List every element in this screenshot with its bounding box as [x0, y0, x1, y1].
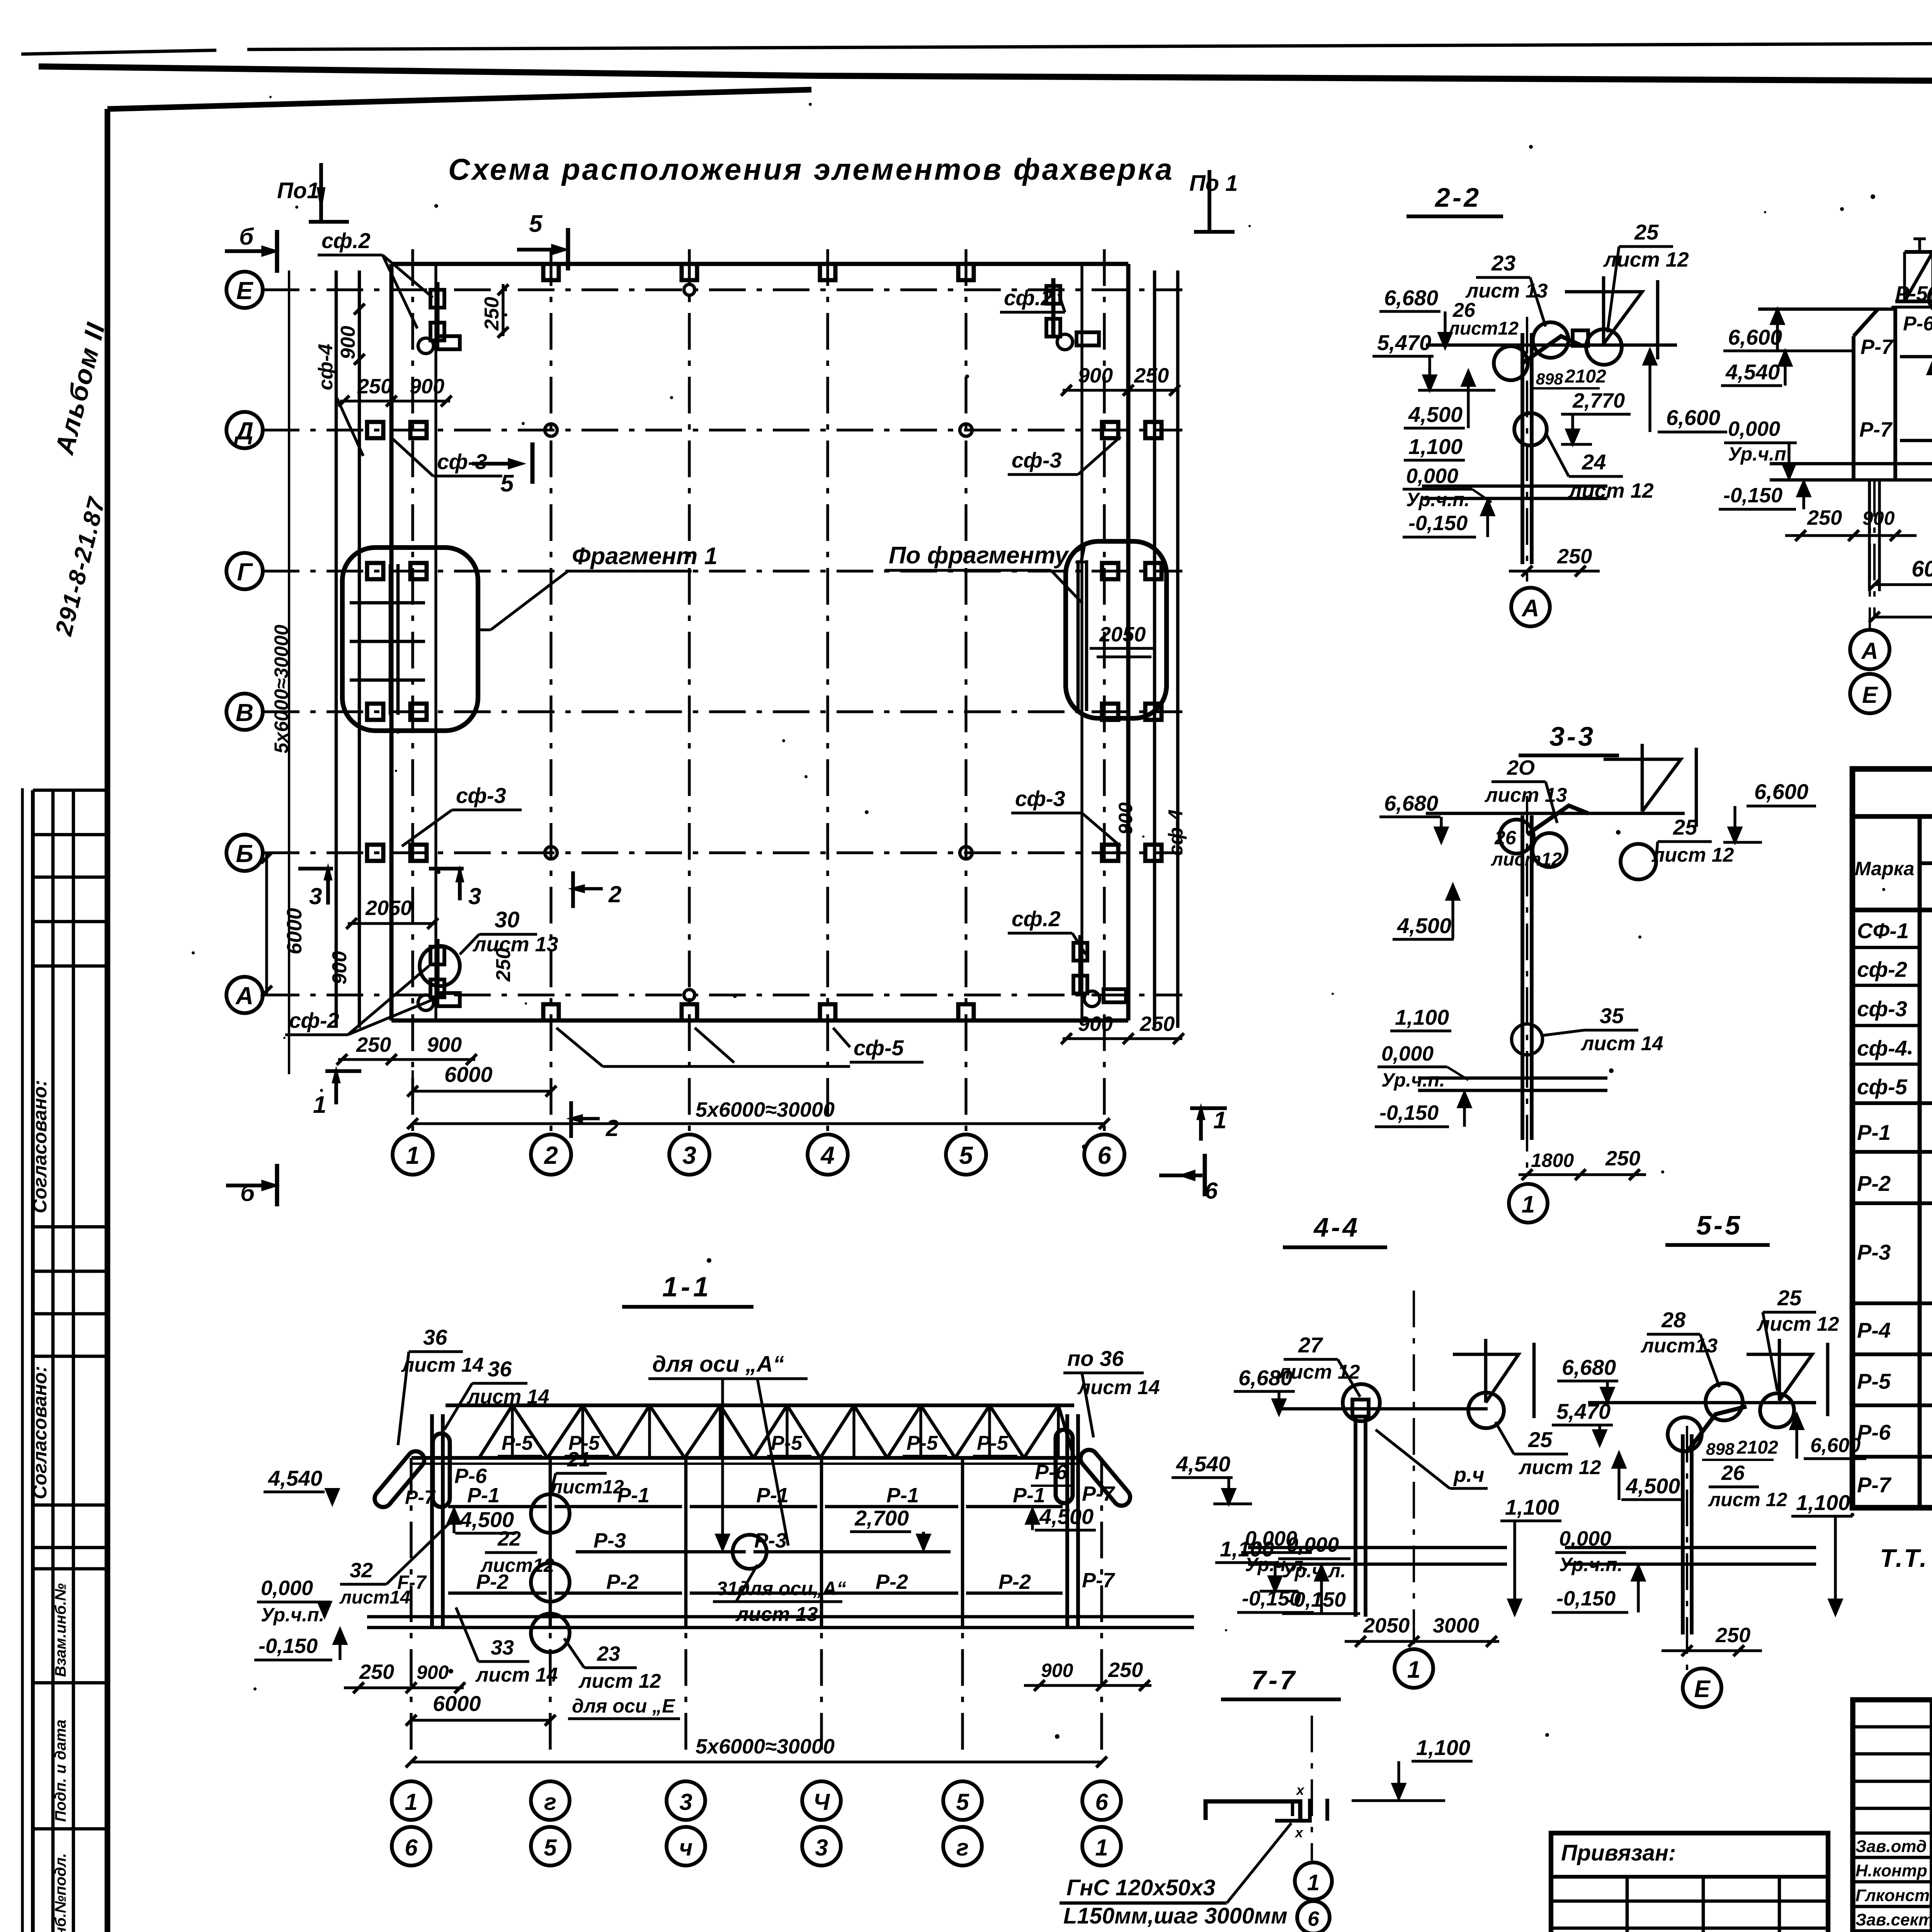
- section 6-6 level 6,600 left: [1723, 309, 1784, 351]
- svg-text:Зав.отд: Зав.отд: [1855, 1837, 1927, 1856]
- titleblock signature table rows: [1853, 1727, 1932, 1932]
- svg-text:33: 33: [491, 1636, 514, 1659]
- plan left wall post marks row y1113: [367, 422, 427, 438]
- section 5-5 level 0,000: [1555, 1527, 1626, 1575]
- plan section flag Po 1 top-right: [1189, 170, 1238, 232]
- svg-text:1: 1: [1522, 1191, 1535, 1218]
- plan left wall post marks row y1478: [367, 563, 427, 579]
- section 1-1 label 2,700: [850, 1506, 930, 1549]
- svg-text:1,100: 1,100: [1408, 434, 1463, 459]
- section 3-3 label 0,000: [1378, 1042, 1468, 1091]
- section 5-5 label 5,470: [1552, 1399, 1613, 1445]
- svg-text:5х6000≈30000: 5х6000≈30000: [696, 1735, 835, 1758]
- svg-text:6: 6: [1097, 1141, 1111, 1169]
- section 1-1 dims 250 900 left: [344, 1660, 465, 1693]
- svg-text:1: 1: [1307, 1870, 1320, 1895]
- svg-text:по 36: по 36: [1067, 1346, 1124, 1371]
- svg-text:1-1: 1-1: [662, 1272, 712, 1303]
- section 3-3 label 35 list 14: [1512, 1003, 1663, 1055]
- section 1-1 label 33 list 14: [456, 1607, 558, 1686]
- svg-text:-0,150: -0,150: [1723, 484, 1782, 507]
- section 5-5 level -0,150: [1552, 1566, 1645, 1612]
- plan dim 900 bottom-left rotated: [328, 951, 351, 985]
- svg-text:Подп. и дата: Подп. и дата: [52, 1719, 69, 1822]
- plan dim 900 top-left rotated: [337, 304, 365, 365]
- section 3-3 label 6,680 left: [1379, 791, 1447, 842]
- svg-text:5х6000≈30000: 5х6000≈30000: [270, 624, 292, 753]
- section 6-6 level 4,540 left: [1721, 351, 1855, 386]
- section 2-2 balloon upper-right: [1586, 329, 1622, 365]
- section 4-4 ground lines: [1248, 1548, 1507, 1564]
- svg-text:Фрагмент 1: Фрагмент 1: [572, 543, 718, 570]
- section 4-4 level -0,150: [1237, 1566, 1328, 1612]
- plan axis row 3 line: [263, 710, 1182, 713]
- svg-text:1: 1: [406, 1141, 420, 1169]
- vedomost table outer border: [1852, 769, 1932, 1508]
- svg-text:0,000: 0,000: [261, 1577, 313, 1600]
- svg-text:900: 900: [410, 375, 444, 398]
- plan axis row 2 line: [263, 570, 1182, 572]
- svg-text:Р-6: Р-6: [1857, 1420, 1891, 1444]
- section 1-1 level -0,150 left: [254, 1629, 346, 1660]
- plan dim 250 900 bottom-left: [337, 1033, 477, 1065]
- svg-text:5: 5: [500, 470, 514, 497]
- svg-text:250: 250: [1605, 1147, 1640, 1170]
- section 5-5 balloons: [1668, 1383, 1794, 1451]
- svg-text:4,540: 4,540: [1176, 1452, 1230, 1476]
- titleblock privyazan table outline: [1551, 1833, 1828, 1932]
- section 1-1 labels P-1 row: [467, 1484, 1045, 1507]
- section 1-1 axis circles row 1: [392, 1781, 1121, 1820]
- plan axis row 0 circle: [226, 272, 263, 308]
- svg-text:2О: 2О: [1507, 756, 1535, 779]
- plan top wall post mark at x2142: [820, 264, 835, 280]
- svg-text:Инб.№подл.: Инб.№подл.: [52, 1853, 69, 1932]
- svg-text:25: 25: [1528, 1427, 1553, 1452]
- svg-text:1,100: 1,100: [1796, 1490, 1850, 1515]
- sheet frame top main line: [39, 66, 1932, 84]
- section 1-1 label 36 list 14 second: [444, 1357, 549, 1430]
- plan side fachwerk strut lines right: [1155, 270, 1178, 1028]
- section 7-7 channel profile: [1206, 1782, 1327, 1840]
- svg-text:6,680: 6,680: [1384, 286, 1438, 310]
- svg-text:лист 12: лист 12: [1756, 1313, 1839, 1335]
- plan assembly sf2 bottom-right: [1073, 935, 1126, 1007]
- svg-text:900: 900: [1041, 1660, 1073, 1681]
- section 2-2 truss end flag: [1565, 276, 1658, 359]
- svg-text:1: 1: [1095, 1835, 1108, 1861]
- plan section flag 5 top: [517, 211, 568, 270]
- section 1-1 dims 900 250 right: [1024, 1658, 1151, 1691]
- plan assembly sf2 bottom-left: [418, 939, 460, 1010]
- svg-text:31для оси„А“: 31для оси„А“: [716, 1578, 846, 1599]
- svg-text:-0,150: -0,150: [1379, 1101, 1439, 1124]
- plan axis row 4 circle: [226, 835, 263, 871]
- section 1-1 column solids: [550, 1458, 963, 1628]
- svg-text:Р-5: Р-5: [771, 1432, 803, 1454]
- svg-text:4,500: 4,500: [1397, 913, 1451, 938]
- svg-text:лист 14: лист 14: [1077, 1376, 1160, 1399]
- titleblock privyazan label: [1561, 1840, 1676, 1866]
- titleblock privyazan columns: [1627, 1877, 1779, 1932]
- svg-text:-0,150: -0,150: [1556, 1587, 1616, 1610]
- svg-text:сф.2: сф.2: [321, 228, 371, 253]
- plan label sf.2 top-left: [318, 228, 433, 328]
- section 7-7 label 1,100: [1352, 1735, 1473, 1801]
- plan label sf-3 lower-right: [1011, 786, 1121, 846]
- svg-text:лист 12: лист 12: [1518, 1456, 1601, 1479]
- section 3-3 dims 1800 250: [1519, 1147, 1646, 1180]
- svg-text:-0,150: -0,150: [1408, 512, 1468, 535]
- section 2-2 label -0,150: [1403, 500, 1494, 537]
- svg-text:сф-2: сф-2: [289, 1008, 339, 1032]
- svg-text:Привязан:: Привязан:: [1561, 1840, 1676, 1866]
- left margin text 291-8-21.87: [50, 494, 111, 638]
- section 5-5 label 6,600: [1791, 1414, 1866, 1459]
- svg-text:сф-4: сф-4: [1165, 809, 1187, 856]
- svg-text:Р-7: Р-7: [1861, 335, 1894, 359]
- vedomost header row lines: [1852, 863, 1932, 910]
- svg-text:2: 2: [608, 881, 621, 907]
- section 1-1 label P-6 left: [454, 1464, 487, 1488]
- svg-text:25: 25: [1634, 220, 1659, 244]
- sheet frame inner border left: [105, 109, 111, 1932]
- section 2-2 label 24 list 12: [1546, 433, 1654, 502]
- svg-text:6: 6: [1095, 1789, 1108, 1815]
- vedomost vertical lines: [1920, 816, 1932, 1508]
- plan fragment 1 rounded outline right: [1066, 541, 1167, 718]
- section 6-6 labels P-7: [1859, 335, 1932, 441]
- section 4-4 column: [1352, 1400, 1369, 1617]
- svg-text:250: 250: [1557, 545, 1592, 568]
- plan label sf-3 upper-left: [390, 437, 502, 476]
- section 1-1 labels P-2 row: [476, 1570, 1031, 1594]
- plan axis column 2 line: [549, 249, 552, 1134]
- svg-text:сф-3: сф-3: [437, 449, 487, 474]
- section 6-6 label 54 list 14: [1929, 191, 1932, 314]
- plan dim 900 250 right-mid rotated: [1115, 802, 1136, 835]
- section 2-2 label 4,500: [1404, 371, 1475, 428]
- svg-text:250: 250: [1134, 364, 1169, 387]
- svg-text:Взам.инб.№: Взам.инб.№: [52, 1583, 69, 1677]
- svg-text:6,600: 6,600: [1754, 779, 1808, 804]
- svg-text:900: 900: [427, 1033, 462, 1056]
- section 1-1 label P-6 right: [1031, 1461, 1072, 1486]
- plan label sf-3 upper-right: [1008, 437, 1121, 474]
- section 3-3 balloon mid: [1532, 833, 1566, 867]
- plan bottom dim line 30000: [407, 1098, 1110, 1129]
- svg-text:Г: Г: [237, 558, 253, 586]
- section 1-1 dim 5x6000=30000: [406, 1735, 1107, 1767]
- plan label sf-5 bottom: [556, 1028, 923, 1066]
- svg-text:5,470: 5,470: [1377, 330, 1431, 355]
- svg-text:лист 14: лист 14: [1580, 1032, 1663, 1055]
- sheet outer left thin line: [21, 788, 24, 1932]
- svg-text:г: г: [544, 1789, 556, 1815]
- svg-text:6000: 6000: [283, 908, 306, 954]
- svg-text:35: 35: [1600, 1003, 1624, 1028]
- svg-text:6,600: 6,600: [1666, 405, 1720, 430]
- svg-text:25: 25: [1777, 1286, 1802, 1310]
- plan section flag 2 bottom: [571, 1101, 619, 1141]
- plan side fachwerk strut lines left: [336, 270, 359, 1028]
- section 3-3 title: [1519, 721, 1619, 755]
- section 2-2 label 2,770: [1561, 389, 1631, 444]
- plan left chain line: [288, 270, 290, 1074]
- section 1-1 label dlya osi A: [648, 1352, 808, 1549]
- plan bottom wall post mark at x2500: [958, 1004, 974, 1020]
- svg-text:1: 1: [1213, 1107, 1226, 1134]
- svg-text:6,680: 6,680: [1562, 1355, 1616, 1379]
- plan right wall post marks row y1113: [1102, 422, 1162, 438]
- plan axis column 1 circle: [393, 1134, 433, 1175]
- plan axis row 1 line: [263, 429, 1182, 431]
- section 3-3 label 25 list 12 right: [1651, 815, 1734, 866]
- left stamp text Soglasovano 2: [29, 1366, 51, 1499]
- section 2-2 label 5,470: [1372, 330, 1495, 390]
- section 2-2 balloon lower: [1514, 413, 1547, 446]
- svg-text:сф.2: сф.2: [1004, 286, 1053, 310]
- sheet frame inner border top: [107, 90, 811, 109]
- svg-text:1,100: 1,100: [1416, 1735, 1470, 1760]
- plan axis column 4 circle: [808, 1134, 848, 1175]
- svg-text:22: 22: [497, 1527, 521, 1550]
- svg-text:Е: Е: [236, 277, 254, 304]
- sheet frame top outer line: [21, 41, 1932, 54]
- svg-text:сф-3: сф-3: [1015, 786, 1065, 811]
- plan fragment right 2050 dimension: [1090, 623, 1155, 657]
- svg-text:3000: 3000: [1433, 1614, 1479, 1637]
- plan section flag Po1 top: [277, 163, 349, 222]
- svg-text:4: 4: [820, 1141, 835, 1169]
- svg-text:2: 2: [544, 1141, 558, 1169]
- plan axis node circles: [545, 284, 972, 1000]
- svg-text:1: 1: [405, 1789, 417, 1815]
- section 6-6 label P-6 left: [1903, 313, 1932, 335]
- plan axis row 5 circle: [226, 977, 263, 1013]
- section 1-1 labels P-7 lower: [397, 1569, 1116, 1593]
- section 6-6 foundation posts left: [1869, 480, 1879, 591]
- svg-text:26: 26: [1494, 827, 1517, 849]
- section 1-1 label 4,500 right: [1026, 1504, 1096, 1530]
- svg-text:1800: 1800: [1531, 1150, 1574, 1171]
- section 6-6 truss chords: [1895, 252, 1932, 307]
- svg-text:сф-3: сф-3: [1012, 448, 1062, 472]
- svg-text:Р-1: Р-1: [467, 1484, 500, 1507]
- vedomost marka column texts: [1857, 918, 1909, 1497]
- plan section flag b bottom-left: [226, 1164, 277, 1206]
- section 1-1 beams P-2 level: [448, 1592, 1063, 1595]
- section 2-2 corner brace: [1522, 330, 1588, 363]
- svg-text:6000: 6000: [1912, 556, 1932, 582]
- left margin text Album II: [49, 319, 111, 458]
- plan label Fragment 1: [478, 543, 718, 630]
- svg-text:Е: Е: [1694, 1676, 1711, 1702]
- svg-text:Р-7: Р-7: [1082, 1569, 1116, 1592]
- svg-text:3: 3: [309, 883, 322, 909]
- svg-text:900: 900: [1862, 507, 1895, 529]
- section 6-6 column axis dash lines: [1870, 480, 1932, 630]
- plan dim 6000 left rotated: [261, 852, 306, 997]
- section 2-2 label 26 list 12: [1447, 299, 1519, 339]
- svg-text:лист14: лист14: [339, 1587, 410, 1608]
- svg-text:Р-5: Р-5: [977, 1432, 1009, 1454]
- svg-text:5: 5: [544, 1835, 557, 1861]
- svg-text:А: А: [1861, 638, 1878, 664]
- svg-text:Б: Б: [236, 840, 253, 867]
- plan axis column 3 line: [688, 249, 690, 1134]
- svg-text:Р-3: Р-3: [754, 1529, 787, 1552]
- svg-text:-0,150: -0,150: [1242, 1587, 1301, 1610]
- svg-text:6,600: 6,600: [1810, 1434, 1861, 1457]
- svg-text:7-7: 7-7: [1251, 1665, 1297, 1695]
- section 5-5 label 25 list 12: [1756, 1286, 1839, 1391]
- svg-text:Д: Д: [234, 417, 253, 445]
- svg-text:Р-1: Р-1: [756, 1484, 789, 1507]
- svg-text:лист 14: лист 14: [466, 1386, 549, 1408]
- plan section flag 5 lower: [472, 442, 532, 497]
- svg-text:6: 6: [405, 1835, 418, 1861]
- svg-text:24: 24: [1582, 450, 1606, 474]
- titleblock signature table columns: [1932, 1700, 1932, 1932]
- svg-text:б: б: [239, 224, 254, 250]
- section 5-5 texts 898 2102: [1702, 1437, 1778, 1460]
- section 6-6 left portal column: [1854, 307, 1895, 618]
- plan section flag 3 left: [298, 869, 333, 909]
- plan right wall post marks row y1842: [1102, 704, 1162, 720]
- plan axis row 3 circle: [226, 694, 263, 730]
- section 3-3 label 1,100: [1390, 1005, 1451, 1031]
- svg-text:По фрагменту 1: По фрагменту 1: [889, 542, 1088, 569]
- plan section flag b top-left: [225, 224, 277, 273]
- section 4-4 label 27 list 12: [1277, 1333, 1360, 1397]
- plan label sf-2 bottom-right: [1008, 906, 1086, 954]
- titleblock privyazan rows: [1551, 1877, 1828, 1932]
- svg-text:21: 21: [567, 1448, 590, 1471]
- plan axis column 6 circle: [1084, 1134, 1124, 1175]
- svg-text:5-5: 5-5: [1696, 1210, 1742, 1240]
- svg-text:0,000: 0,000: [1728, 417, 1780, 440]
- plan right wall post marks row y1478: [1102, 563, 1162, 579]
- svg-text:250: 250: [357, 375, 392, 398]
- svg-text:4,540: 4,540: [268, 1466, 322, 1490]
- section 7-7 axis circles stack: [1295, 1862, 1332, 1932]
- plan label sf-4 left rotated: [315, 344, 363, 456]
- plan axis row 2 circle: [226, 553, 263, 589]
- svg-text:5х6000≈30000: 5х6000≈30000: [696, 1098, 835, 1121]
- svg-text:900: 900: [1115, 802, 1136, 835]
- plan section flag 1 bottom-left: [313, 1071, 361, 1118]
- left stamp text Inv N podl: [52, 1853, 69, 1932]
- titleblock signature labels: [1855, 1837, 1932, 1932]
- svg-text:1: 1: [313, 1092, 326, 1118]
- plan axis column 1 line: [411, 249, 414, 1134]
- vedomost table title: [1852, 781, 1932, 816]
- section 1-1 dim 6000: [406, 1691, 556, 1726]
- svg-text:Р-5: Р-5: [1895, 282, 1928, 305]
- plan dim 900 250 bottom-right: [1061, 1012, 1184, 1044]
- left stamp table grid: [33, 790, 107, 1932]
- section 3-3 label 6,600 right: [1723, 779, 1816, 842]
- svg-text:2: 2: [605, 1115, 619, 1141]
- plan label Po fragmentu 1: [885, 542, 1088, 603]
- svg-text:лист12: лист12: [550, 1476, 624, 1498]
- plan left wall post marks row y2207: [367, 845, 427, 861]
- vedomost row separator lines: [1852, 947, 1932, 1457]
- plan section flag 3 right: [429, 869, 481, 909]
- svg-text:Р-5: Р-5: [502, 1432, 533, 1454]
- plan dim 900 250 top-right: [1061, 364, 1180, 396]
- svg-text:3-3: 3-3: [1549, 721, 1595, 752]
- svg-text:Р-5: Р-5: [906, 1432, 938, 1454]
- section 4-4 axis line: [1413, 1291, 1415, 1644]
- section 1-1 level 4,540 right: [1172, 1452, 1252, 1504]
- svg-text:32: 32: [350, 1559, 373, 1582]
- plan label sf-2 bottom-left: [285, 966, 435, 1035]
- svg-text:Р-7: Р-7: [405, 1486, 436, 1508]
- plan axis row 5 line: [263, 993, 1182, 996]
- section 2-2 label 0,000: [1403, 464, 1492, 510]
- section 6-6 level 0,000 left: [1724, 417, 1797, 478]
- section 2-2 title: [1406, 182, 1503, 216]
- section 5-5 title: [1665, 1210, 1770, 1245]
- svg-text:900: 900: [328, 951, 351, 985]
- svg-text:2-2: 2-2: [1434, 182, 1481, 213]
- svg-text:26: 26: [1721, 1461, 1745, 1485]
- svg-text:900: 900: [1078, 364, 1113, 387]
- section 4-4 label 25 list 12: [1495, 1422, 1601, 1479]
- svg-text:Р-7: Р-7: [1859, 418, 1893, 441]
- svg-text:А: А: [235, 982, 253, 1010]
- plan section flag 1 bottom-right: [1190, 1107, 1227, 1141]
- svg-text:0,000: 0,000: [1381, 1042, 1434, 1065]
- section 6-6 beam P-1 left bay: [1900, 355, 1932, 359]
- svg-text:для оси „А“: для оси „А“: [652, 1352, 784, 1377]
- svg-text:лист 13: лист 13: [472, 933, 558, 956]
- svg-text:Р-1: Р-1: [886, 1484, 919, 1507]
- section 6-6 level -0,150 left: [1719, 481, 1810, 509]
- svg-text:Марка: Марка: [1855, 858, 1914, 879]
- section 1-1 left capsules: [371, 1434, 450, 1510]
- section 1-1 label 4,500 left: [448, 1507, 516, 1533]
- plan fragment 1 rounded outline left: [342, 548, 478, 731]
- svg-text:сф.2: сф.2: [1012, 906, 1061, 931]
- svg-text:Р-2: Р-2: [1857, 1171, 1891, 1196]
- section 6-6 dim 5x6000=30000: [1869, 591, 1932, 622]
- section 1-1 labels P-7 upper: [405, 1482, 1116, 1508]
- svg-text:Р-2: Р-2: [876, 1570, 908, 1594]
- section 6-6 beams P-2 row: [1900, 439, 1932, 442]
- plan axis column 2 circle: [531, 1134, 571, 1175]
- svg-text:лист 13: лист 13: [1484, 784, 1567, 806]
- plan axis column 5 line: [964, 249, 967, 1134]
- section 5-5 truss end flag: [1747, 1339, 1828, 1416]
- section 6-6 left level line 6600: [1758, 308, 1895, 311]
- section 5-5 label 1,100: [1791, 1490, 1852, 1614]
- section 1-1 balloon at ground col2: [531, 1614, 570, 1652]
- svg-text:25: 25: [1673, 815, 1697, 839]
- section 5-5 column: [1683, 1426, 1692, 1673]
- plan top wall post mark at x2500: [958, 264, 974, 280]
- svg-text:ГнС 120х50х3: ГнС 120х50х3: [1066, 1875, 1215, 1900]
- section 1-1 labels P-5 row: [498, 1432, 1017, 1456]
- svg-text:6: 6: [1308, 1907, 1320, 1930]
- section 1-1 truss web members: [479, 1405, 1074, 1458]
- section 2-2 label 1,100: [1404, 434, 1465, 460]
- plan top wall post mark at x1784: [682, 264, 697, 280]
- section 3-3 label -0,150: [1375, 1092, 1471, 1127]
- svg-text:250: 250: [1139, 1012, 1175, 1036]
